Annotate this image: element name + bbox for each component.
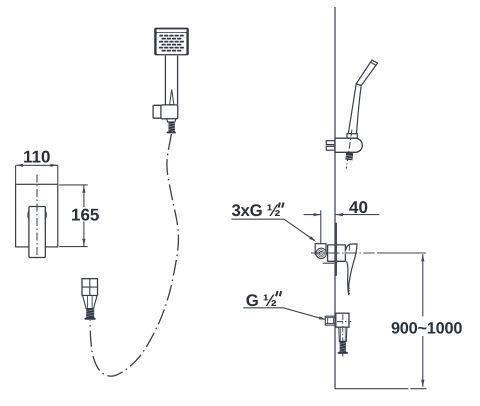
svg-text:165: 165 [71,205,99,224]
svg-text:900~1000: 900~1000 [391,319,462,337]
svg-text:40: 40 [349,198,368,217]
svg-text:G ½: G ½ [246,291,277,310]
svg-text:3xG ½: 3xG ½ [231,201,280,220]
svg-text:110: 110 [23,147,50,166]
